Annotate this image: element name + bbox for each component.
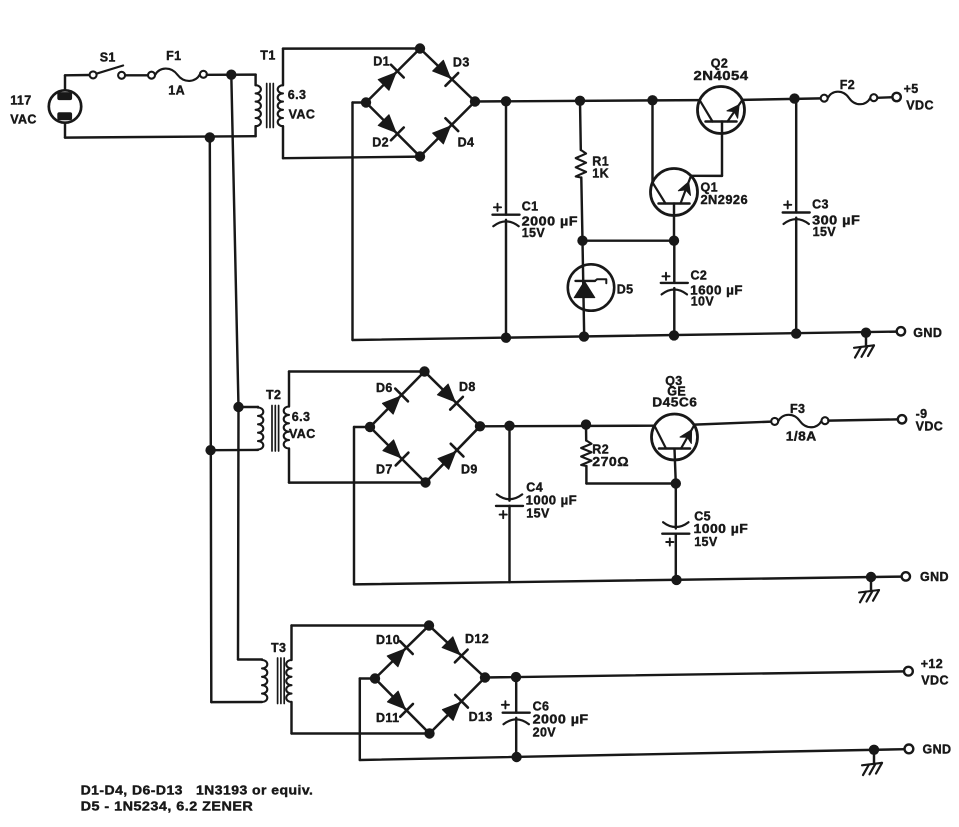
svg-text:D10: D10 (376, 633, 400, 647)
svg-text:1K: 1K (592, 167, 609, 181)
svg-text:VAC: VAC (289, 108, 316, 122)
svg-text:C1: C1 (522, 199, 539, 213)
svg-text:10V: 10V (691, 295, 715, 309)
svg-text:S1: S1 (100, 51, 116, 65)
svg-text:D12: D12 (465, 632, 489, 646)
svg-text:+5: +5 (904, 82, 919, 96)
svg-text:D9: D9 (461, 463, 478, 477)
svg-text:D8: D8 (459, 380, 476, 394)
svg-text:2N2926: 2N2926 (701, 193, 749, 207)
svg-text:C3: C3 (812, 198, 829, 212)
svg-text:F1: F1 (166, 49, 181, 63)
svg-text:C4: C4 (526, 481, 543, 495)
svg-text:VAC: VAC (289, 427, 316, 441)
svg-text:D2: D2 (372, 135, 389, 149)
svg-text:C2: C2 (691, 269, 708, 283)
svg-text:1/8A: 1/8A (786, 429, 817, 443)
svg-text:1000 µF: 1000 µF (694, 522, 749, 536)
svg-text:F3: F3 (790, 402, 805, 416)
svg-text:D5 - 1N5234, 6.2 ZENER: D5 - 1N5234, 6.2 ZENER (81, 800, 254, 814)
svg-text:+12: +12 (921, 657, 943, 671)
svg-text:GND: GND (923, 742, 952, 756)
svg-text:D1: D1 (373, 55, 390, 69)
svg-text:2000 µF: 2000 µF (533, 713, 589, 727)
svg-text:D1-D4, D6-D13 1N3193 or equi: D1-D4, D6-D13 1N3193 or equiv. (81, 783, 314, 797)
svg-text:D11: D11 (376, 711, 399, 725)
svg-text:VDC: VDC (916, 420, 944, 434)
svg-text:F2: F2 (840, 78, 855, 92)
svg-text:6.3: 6.3 (292, 410, 311, 424)
svg-text:D5: D5 (617, 282, 634, 296)
svg-text:D45C6: D45C6 (652, 396, 697, 410)
svg-text:GND: GND (913, 326, 942, 340)
svg-text:117: 117 (10, 94, 31, 108)
svg-text:D4: D4 (458, 135, 475, 149)
svg-text:VAC: VAC (10, 112, 37, 126)
svg-text:6.3: 6.3 (288, 88, 307, 102)
svg-text:15V: 15V (813, 225, 837, 239)
svg-text:C6: C6 (533, 699, 550, 713)
svg-text:2N4054: 2N4054 (694, 69, 749, 83)
svg-text:15V: 15V (526, 506, 550, 520)
svg-text:GND: GND (920, 570, 949, 584)
svg-text:T2: T2 (266, 388, 281, 402)
svg-text:D3: D3 (453, 56, 470, 70)
svg-text:D13: D13 (469, 710, 493, 724)
svg-text:270Ω: 270Ω (592, 455, 629, 469)
svg-text:T3: T3 (271, 641, 286, 655)
svg-text:1A: 1A (168, 83, 185, 97)
svg-text:20V: 20V (533, 726, 557, 740)
svg-text:15V: 15V (522, 226, 546, 240)
svg-text:VDC: VDC (921, 674, 949, 688)
svg-text:D7: D7 (376, 463, 393, 477)
svg-text:VDC: VDC (906, 99, 934, 113)
svg-text:15V: 15V (694, 535, 718, 549)
svg-text:D6: D6 (376, 381, 393, 395)
svg-text:T1: T1 (260, 49, 275, 63)
